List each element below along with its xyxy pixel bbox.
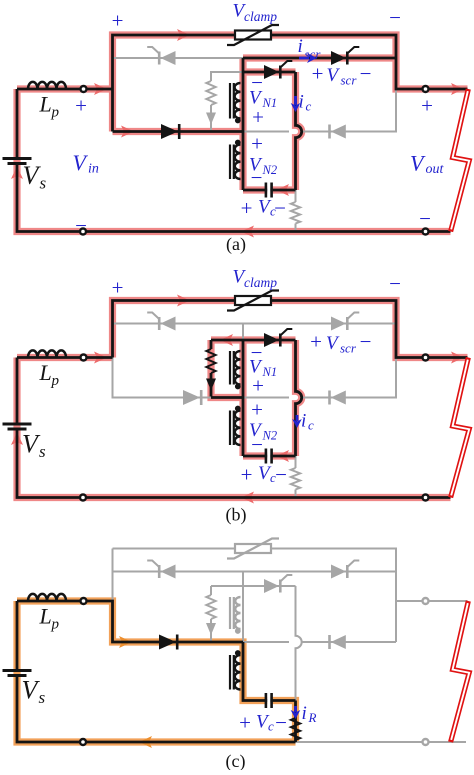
svg-text:scr: scr [340, 341, 357, 356]
svg-text:p: p [51, 617, 60, 633]
svg-text:+: + [241, 463, 253, 487]
svg-text:i: i [299, 92, 304, 113]
svg-text:clamp: clamp [244, 275, 277, 290]
svg-text:−: − [275, 711, 287, 735]
svg-text:+: + [251, 398, 263, 422]
svg-text:−: − [389, 272, 401, 296]
svg-text:+: + [251, 132, 263, 156]
svg-text:L: L [39, 360, 52, 385]
svg-text:−: − [360, 62, 372, 86]
svg-text:(c): (c) [226, 751, 246, 770]
svg-text:N2: N2 [262, 163, 278, 177]
svg-text:c: c [306, 99, 312, 114]
svg-text:+: + [312, 62, 324, 86]
svg-text:s: s [40, 174, 47, 193]
svg-text:+: + [310, 330, 322, 354]
svg-text:i: i [301, 411, 306, 432]
svg-text:s: s [39, 688, 46, 707]
svg-text:(a): (a) [226, 234, 246, 255]
svg-text:+: + [241, 196, 253, 220]
svg-text:(b): (b) [226, 505, 247, 526]
svg-text:−: − [75, 214, 87, 238]
svg-text:+: + [112, 276, 124, 300]
svg-text:p: p [51, 105, 60, 121]
svg-text:p: p [51, 373, 60, 389]
svg-text:+: + [112, 9, 124, 33]
svg-text:L: L [39, 92, 52, 117]
svg-text:in: in [88, 162, 99, 177]
svg-text:L: L [39, 604, 52, 629]
svg-text:−: − [251, 166, 263, 190]
svg-text:+: + [75, 94, 87, 118]
svg-text:−: − [389, 6, 401, 30]
svg-text:−: − [251, 433, 263, 457]
svg-text:−: − [360, 330, 372, 354]
svg-text:i: i [302, 703, 307, 724]
svg-text:−: − [419, 207, 431, 231]
svg-text:+: + [252, 105, 264, 129]
svg-text:+: + [421, 94, 433, 118]
svg-text:clamp: clamp [244, 9, 277, 24]
svg-text:s: s [39, 442, 46, 461]
svg-text:c: c [308, 418, 314, 433]
svg-text:out: out [426, 162, 445, 177]
svg-text:c: c [268, 719, 274, 734]
svg-text:scr: scr [305, 47, 322, 62]
svg-text:−: − [275, 463, 287, 487]
svg-text:−: − [274, 196, 286, 220]
svg-text:i: i [298, 36, 303, 57]
svg-text:+: + [252, 374, 264, 398]
svg-text:+: + [239, 711, 251, 735]
svg-text:N2: N2 [262, 429, 278, 443]
svg-text:R: R [308, 710, 317, 725]
svg-text:scr: scr [341, 73, 358, 88]
